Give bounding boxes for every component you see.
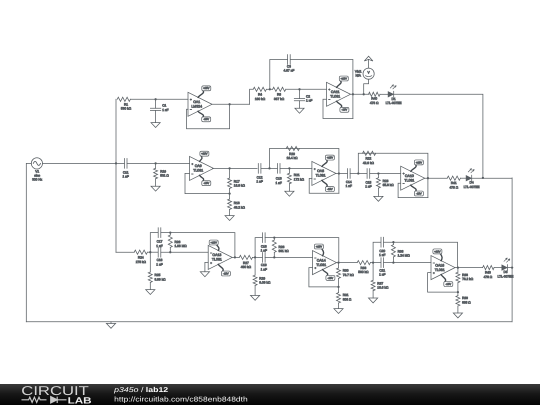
wire: R21 to ground — [288, 184, 290, 192]
svg-text:1 nF: 1 nF — [256, 180, 262, 184]
svg-text:1 nF: 1 nF — [276, 181, 282, 185]
svg-text:TL081: TL081 — [404, 179, 414, 183]
resistor R18 — [228, 199, 246, 209]
capacitor C3 — [283, 55, 294, 73]
svg-text:160 kΩ: 160 kΩ — [255, 97, 266, 101]
wire: R28 leads — [273, 238, 275, 258]
wire: R31 to ground — [338, 303, 340, 309]
resistor R19 — [154, 168, 170, 178]
wire: V1 to ground rail — [26, 163, 31, 321]
svg-text:TL081: TL081 — [193, 169, 203, 173]
ground (R29) — [251, 295, 260, 300]
svg-text:476 Ω: 476 Ω — [450, 185, 459, 189]
svg-text:48.2 kΩ: 48.2 kΩ — [234, 205, 246, 209]
svg-text:+15V: +15V — [416, 161, 423, 164]
svg-text:OA13: OA13 — [212, 253, 221, 257]
wire: R8 to OA11 + input — [286, 88, 327, 90]
wire: to R29 — [254, 257, 256, 275]
op-amp OA1 — [188, 86, 212, 122]
wire: up to C20 — [373, 242, 381, 262]
svg-text:9.09 kΩ: 9.09 kΩ — [259, 281, 271, 285]
wire: R24 to C16 — [147, 251, 158, 253]
wire: OA11 output — [351, 93, 370, 95]
svg-text:1 nF: 1 nF — [156, 244, 162, 248]
wire: R36 leads — [392, 242, 394, 262]
capacitor C14 — [346, 169, 352, 188]
resistor R31 — [337, 293, 352, 303]
wire: OA13 output — [232, 256, 239, 258]
resistor R36 — [391, 245, 410, 258]
op-amp OA16 — [431, 249, 455, 286]
wire: C3 to OA11 output column — [291, 60, 353, 119]
svg-text:-15V: -15V — [327, 188, 333, 191]
wire: C11 to OA9 + input — [127, 162, 190, 164]
wire: to R23 — [377, 174, 379, 178]
node A3: R33/C21/C20/R37 — [372, 261, 374, 263]
wire: to R38 — [457, 268, 459, 273]
wire: bottom ground rail — [26, 321, 512, 323]
wire: C12 to C13 — [261, 167, 278, 169]
node: R21 tap — [288, 167, 290, 169]
svg-text:42.9 kΩ: 42.9 kΩ — [363, 161, 375, 165]
node: C2 junction — [298, 88, 300, 90]
wire: OA8 output to C14 — [336, 173, 347, 175]
capacitor C1 — [150, 99, 168, 122]
resistor R38 — [456, 272, 474, 282]
svg-text:OA11: OA11 — [331, 90, 340, 94]
svg-text:16.9 kΩ: 16.9 kΩ — [234, 184, 246, 188]
ground (rail) — [106, 323, 115, 328]
wire: OA1 output — [212, 103, 250, 105]
ground (R25) — [146, 290, 155, 295]
svg-text:OA8: OA8 — [317, 169, 324, 173]
svg-text:590 kΩ: 590 kΩ — [358, 270, 369, 274]
capacitor C17 — [156, 228, 162, 248]
svg-text:TL081: TL081 — [330, 95, 340, 99]
svg-text:65.8 kΩ: 65.8 kΩ — [383, 183, 395, 187]
svg-text:991 kΩ: 991 kΩ — [279, 249, 290, 253]
wire: OA13 + to ground — [205, 262, 208, 271]
node: OA14 output/R30 — [337, 261, 339, 263]
svg-text:1 nF: 1 nF — [162, 108, 168, 112]
ground (R39) — [453, 313, 462, 318]
capacitor C19 — [261, 253, 267, 272]
node: C14/C15/R22 — [357, 172, 359, 174]
CircuitLab logo: schematic squiggle — [22, 397, 67, 403]
resistor R43 — [483, 266, 495, 279]
node: R17/R18/feedback — [228, 192, 230, 194]
ground (R18) — [225, 216, 234, 221]
resistor R27 — [239, 255, 252, 269]
capacitor C20 — [379, 237, 385, 257]
capacitor C12 — [256, 164, 262, 184]
wire: bus to R24 — [116, 251, 134, 253]
resistor R33 — [357, 261, 370, 275]
svg-text:+15V: +15V — [327, 157, 334, 160]
svg-text:300 Hz: 300 Hz — [32, 177, 43, 181]
wire: to R37 — [372, 263, 374, 281]
svg-text:N/A: N/A — [356, 74, 362, 78]
wire: R25 to ground — [149, 282, 151, 289]
wire: R18 to ground — [229, 209, 231, 215]
wire: R38 to R39 — [457, 283, 459, 296]
node: R36 top — [392, 241, 394, 243]
wire: R43 to D6 — [494, 267, 502, 269]
capacitor C13 — [276, 164, 282, 185]
svg-text:1 nF: 1 nF — [346, 184, 352, 188]
resistor R40 — [369, 92, 381, 105]
ground (C2) — [295, 108, 304, 113]
wire: OA9 output — [213, 167, 258, 169]
svg-text:1 nF: 1 nF — [365, 185, 371, 189]
svg-text:LM324: LM324 — [191, 105, 202, 109]
wire: R1 to OA1 + input — [130, 98, 188, 100]
svg-text:+: + — [190, 98, 192, 102]
svg-text:TL081: TL081 — [316, 174, 326, 178]
svg-text:-15V: -15V — [203, 182, 209, 185]
svg-text:OA10: OA10 — [405, 174, 414, 178]
capacitor C11 — [123, 159, 129, 179]
resistor R25 — [148, 272, 166, 282]
svg-text:10.6 kΩ: 10.6 kΩ — [377, 286, 389, 290]
svg-text:LTL-307EE: LTL-307EE — [464, 185, 480, 189]
ground (OA13 +) — [200, 272, 209, 277]
wire: OA16 + loop to divider — [428, 273, 458, 293]
wire: R40 to D1 — [380, 93, 388, 95]
ground (C1) — [151, 123, 160, 128]
node: row1/row2 join — [482, 177, 484, 179]
resistor R17 — [228, 178, 246, 188]
svg-text:1 nF: 1 nF — [306, 99, 312, 103]
svg-text:TL081: TL081 — [212, 258, 222, 262]
wire: R39 to ground — [457, 306, 459, 313]
wire: C15 to OA10 — [370, 173, 401, 175]
wire: up to C18 — [255, 238, 262, 258]
wire: to R30 — [338, 263, 340, 268]
wire: R20 feedback loop — [270, 149, 339, 194]
wire: V1 to C11 — [43, 162, 125, 164]
wire: to VM1 — [364, 79, 369, 94]
wire: OA14 output — [337, 262, 358, 264]
svg-text:531 Ω: 531 Ω — [160, 174, 169, 178]
svg-text:OA1: OA1 — [193, 100, 200, 104]
node: R30/R31/loop — [337, 286, 339, 288]
wire: to R17 — [229, 168, 231, 178]
probe flag (VM1 top) — [364, 56, 373, 61]
svg-text:8.99 kΩ: 8.99 kΩ — [155, 277, 167, 281]
svg-text:276 kΩ: 276 kΩ — [136, 260, 147, 264]
op-amp OA10 — [401, 160, 425, 196]
svg-text:172 kΩ: 172 kΩ — [294, 177, 305, 181]
svg-text:+15V: +15V — [434, 250, 441, 253]
wire: R30 to R31 — [338, 278, 340, 292]
svg-text:OA9: OA9 — [195, 164, 202, 168]
wire: D6 to right column — [508, 267, 512, 269]
svg-text:+15V: +15V — [211, 241, 218, 244]
resistor R39 — [456, 296, 471, 306]
wire: OA1 feedback loop — [187, 104, 230, 128]
node: OA16 output/R38 — [457, 266, 459, 268]
wire: to R25 — [149, 252, 151, 272]
LED D4 — [464, 169, 480, 189]
svg-text:1.24 MΩ: 1.24 MΩ — [398, 254, 411, 258]
resistor R37 — [371, 280, 389, 290]
resistor R1 — [117, 97, 132, 110]
svg-text:4.67 nF: 4.67 nF — [283, 69, 294, 73]
capacitor C2 — [294, 89, 312, 108]
svg-text:+: + — [314, 167, 316, 171]
op-amp OA9 — [190, 151, 214, 185]
wire: C21 to OA16 - input — [384, 262, 431, 264]
svg-text:p345o / lab12: p345o / lab12 — [113, 386, 168, 394]
svg-text:LTL-307EE: LTL-307EE — [498, 274, 514, 278]
resistor R21 — [287, 173, 304, 184]
svg-text:LTL-307EE: LTL-307EE — [386, 101, 402, 105]
svg-text:OA14: OA14 — [317, 258, 326, 262]
node: R38/R39/loop — [457, 291, 459, 293]
svg-text:806 Ω: 806 Ω — [343, 297, 352, 301]
wire: OA10 output to R41 — [425, 177, 448, 179]
wire: OA9 feedback loop — [185, 173, 230, 193]
svg-text:http://circuitlab.com/c858enb8: http://circuitlab.com/c858enb848dth — [114, 395, 248, 403]
node: OA11 output — [352, 93, 354, 95]
capacitor C18 — [261, 233, 267, 253]
svg-text:+15V: +15V — [316, 245, 323, 248]
wire: C13 to OA8 — [280, 167, 312, 169]
node: R26 top — [169, 231, 171, 233]
wire: R22 feedback loop — [358, 153, 428, 197]
svg-text:367 kΩ: 367 kΩ — [274, 97, 285, 101]
wire: up to R4 — [250, 89, 254, 104]
resistor R23 — [376, 178, 394, 188]
node: R1/C1 junction — [154, 98, 156, 100]
svg-text:1 nF: 1 nF — [123, 175, 129, 179]
wire: OA16 output — [455, 267, 483, 269]
svg-text:OA16: OA16 — [435, 263, 444, 267]
resistor R28 — [272, 240, 289, 253]
resistor R24 — [134, 250, 147, 264]
node: OA8 output — [338, 172, 340, 174]
wire: C14 to C15 — [350, 173, 367, 175]
voltmeter VM1 — [355, 68, 374, 79]
op-amp OA11 — [327, 76, 351, 112]
resistor R20 — [286, 146, 299, 160]
wire: up to C3 feedback — [270, 60, 287, 90]
ground (R19) — [151, 186, 160, 191]
node: R36 bottom — [392, 261, 394, 263]
wire: C20/R36 loop to OA16 output — [384, 242, 458, 267]
source V1 — [31, 158, 42, 182]
wire: left bus vertical (R1/V1/row3) — [115, 99, 117, 252]
svg-text:TL081: TL081 — [435, 268, 445, 272]
svg-text:-15V: -15V — [328, 277, 334, 280]
capacitor C15 — [365, 169, 371, 189]
wire: R41 to D4 — [460, 177, 466, 179]
svg-text:+15V: +15V — [341, 77, 348, 80]
op-amp OA8 — [312, 155, 336, 191]
wire: R23 to ground — [377, 188, 379, 196]
op-amp OA13 — [208, 240, 232, 276]
node: R23 tap — [377, 172, 379, 174]
svg-text:73.7 kΩ: 73.7 kΩ — [343, 273, 355, 277]
svg-text:1 nF: 1 nF — [379, 253, 385, 257]
svg-text:+15V: +15V — [201, 153, 208, 156]
node: R28 top — [273, 236, 275, 238]
ground (R21) — [285, 191, 294, 196]
wire: R27 to C19 — [253, 256, 263, 258]
wire: OA11 inverting feedback loop — [323, 99, 353, 118]
svg-text:476 Ω: 476 Ω — [484, 275, 493, 279]
resistor R41 — [447, 176, 460, 189]
ground (R37) — [369, 298, 378, 303]
svg-text:TL081: TL081 — [316, 263, 326, 267]
node: OA13 output — [234, 256, 236, 258]
node: R26 bottom — [169, 251, 171, 253]
svg-text:1 nF: 1 nF — [156, 262, 162, 266]
resistor R4 — [253, 87, 266, 101]
wire: R33 to C21 — [370, 262, 380, 264]
svg-text:-15V: -15V — [203, 118, 209, 121]
svg-text:490 kΩ: 490 kΩ — [241, 265, 252, 269]
node: OA9 output/R17 — [228, 167, 230, 169]
svg-text:-15V: -15V — [445, 283, 451, 286]
wire: R29 to ground — [254, 286, 256, 296]
LED D1 — [386, 85, 402, 105]
svg-text:-15V: -15V — [223, 272, 229, 275]
capacitor C21 — [379, 258, 385, 277]
wire: R37 to ground — [372, 291, 374, 298]
wire: VM1 to probe flag — [368, 59, 370, 68]
svg-text:LAB: LAB — [68, 395, 93, 405]
svg-text:476 Ω: 476 Ω — [370, 101, 379, 105]
node A2: R27/C19/C18/R29 — [254, 256, 256, 258]
wire: C18/R28 loop to OA14 output — [265, 238, 339, 263]
wire: R4 to R8 — [266, 88, 272, 90]
svg-text:78.2 kΩ: 78.2 kΩ — [462, 277, 474, 281]
ground (R23) — [374, 196, 383, 201]
wire: D1 to right column — [394, 94, 483, 178]
wire: D4 to right column — [472, 177, 512, 179]
node: D6/right column — [511, 266, 513, 268]
node: bus/V1 junction — [115, 162, 117, 164]
node: R4/R8/C3 junction — [269, 88, 271, 90]
wire: OA8 feedback loop — [309, 178, 339, 193]
wire: OA10 feedback loop — [398, 183, 428, 197]
wire: C19 to OA14 - input — [265, 256, 312, 258]
wire: OA14 + loop to divider — [309, 268, 339, 287]
wire: up to C17 — [150, 233, 158, 253]
resistor R22 — [363, 151, 376, 165]
wire: R17 to R18 — [229, 188, 231, 199]
wire: rail ground tap — [110, 322, 112, 324]
resistor R30 — [337, 268, 355, 278]
svg-text:-15V: -15V — [416, 192, 422, 195]
resistor R8 — [273, 87, 286, 101]
LED D6 — [498, 258, 514, 278]
node: VM1 tap — [363, 93, 365, 95]
svg-text:-15V: -15V — [342, 109, 348, 112]
svg-text:530 kΩ: 530 kΩ — [121, 107, 132, 111]
node: C12/C13/R20 — [268, 167, 270, 169]
svg-text:+: + — [192, 162, 194, 166]
node: OA1 output/feedback — [228, 103, 230, 105]
node: OA10 output — [427, 177, 429, 179]
resistor R29 — [253, 275, 271, 285]
wire: to R21 — [288, 168, 290, 173]
op-amp OA14 — [313, 244, 337, 280]
footer bar — [0, 384, 540, 405]
svg-text:1 nF: 1 nF — [261, 267, 267, 271]
svg-text:1.06 MΩ: 1.06 MΩ — [175, 244, 188, 248]
node: R19 tap — [154, 162, 156, 164]
svg-text:16.4 kΩ: 16.4 kΩ — [286, 156, 298, 160]
wire: to R19 — [155, 163, 157, 168]
svg-text:1 nF: 1 nF — [379, 273, 385, 277]
svg-text:866 Ω: 866 Ω — [462, 300, 471, 304]
wire: C17/R26 loop to OA13 output — [161, 233, 235, 258]
wire: R19 to ground — [155, 179, 157, 187]
wire: R26 leads — [169, 233, 171, 253]
svg-text:1 nF: 1 nF — [261, 249, 267, 253]
wire: right column down — [511, 178, 513, 322]
node A: R24/C16/C17/R25 — [149, 251, 151, 253]
capacitor C16 — [156, 247, 162, 266]
resistor R26 — [168, 235, 187, 248]
svg-text:+15V: +15V — [203, 87, 210, 90]
node: R28 bottom — [273, 256, 275, 258]
wire: C16 to OA13 - input — [161, 251, 208, 253]
ground (R31) — [334, 309, 343, 314]
